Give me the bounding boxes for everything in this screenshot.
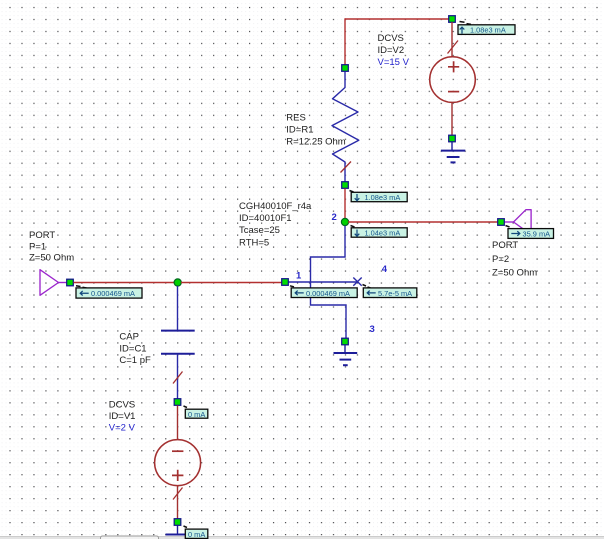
- node 2 label: [332, 212, 337, 223]
- current label 0.000469 mA (port 1): [76, 288, 142, 298]
- svg-text:RES: RES: [286, 112, 306, 123]
- port 1 symbol: [40, 270, 67, 296]
- DCVS U=V2 labels: [378, 33, 410, 68]
- leader dash to port2 current label: [506, 226, 510, 228]
- node at top of R1 (green square): [342, 65, 349, 72]
- current label 35.9 mA (port 2): [508, 229, 554, 239]
- svg-text:1.08e3 mA: 1.08e3 mA: [365, 193, 401, 202]
- DCVS V2 source circle: [430, 57, 476, 103]
- node at port 2 (green square): [498, 219, 505, 226]
- wire top-left vertical down to R1 top node: [344, 18, 346, 65]
- svg-text:DCVS: DCVS: [378, 33, 404, 44]
- node at top of V2 (green square): [449, 16, 456, 23]
- leader dashes to gate-side drain label: [351, 226, 360, 230]
- svg-text:C=1 pF: C=1 pF: [119, 355, 151, 366]
- svg-text:0 mA: 0 mA: [188, 530, 205, 539]
- svg-text:1.08e3 mA: 1.08e3 mA: [470, 26, 506, 35]
- svg-text:4: 4: [382, 264, 388, 275]
- svg-text:ID=R1: ID=R1: [286, 124, 313, 135]
- DCVS V1 labels: [109, 399, 136, 433]
- PORT P=1 labels: [29, 230, 74, 264]
- current label 1.04e3 mA (transistor drain): [351, 228, 407, 238]
- current label 0.000469 mA (gate): [291, 288, 357, 298]
- wire R1 bottom to node 2: [344, 189, 346, 220]
- svg-text:0.000469 mA: 0.000469 mA: [91, 289, 135, 298]
- wire port 1 to junction: [74, 282, 175, 284]
- svg-text:Z=50 Ohm: Z=50 Ohm: [29, 253, 74, 264]
- svg-text:Tcase=25: Tcase=25: [239, 225, 280, 236]
- current label 5.7e-5 mA (node 4): [363, 288, 417, 298]
- DCVS V1 top lead: [177, 406, 179, 440]
- ground at node 3: [334, 345, 358, 365]
- transistor U1 CGH40010F labels: [239, 201, 312, 249]
- svg-text:ID=V2: ID=V2: [378, 45, 405, 56]
- svg-text:V=2 V: V=2 V: [109, 423, 136, 434]
- svg-text:PORT: PORT: [492, 240, 518, 251]
- node under V2 (green square): [449, 135, 456, 142]
- svg-text:1.04e3 mA: 1.04e3 mA: [365, 229, 401, 238]
- leader dashes to node4 current label: [363, 285, 371, 289]
- node 4 label: [382, 264, 388, 275]
- RES R1 labels: [286, 112, 345, 147]
- svg-text:ID=V1: ID=V1: [109, 411, 136, 422]
- svg-text:0 mA: 0 mA: [188, 410, 205, 419]
- leader dash to bottom 0 mA label: [184, 526, 188, 528]
- DCVS V2 top lead with pin-1 tick: [448, 22, 459, 57]
- port 2 symbol: [505, 210, 532, 235]
- leader dash to 0 mA label: [184, 406, 188, 408]
- node at bottom of R1 (green square): [342, 182, 349, 189]
- node at bottom of V1 (green square): [174, 519, 181, 526]
- node 4 open-pin X mark: [353, 278, 361, 286]
- wire junction to node 1: [181, 282, 282, 284]
- svg-text:3: 3: [370, 324, 375, 335]
- leader dashes to gate current label: [290, 286, 294, 287]
- ground under V2: [441, 142, 465, 162]
- PORT P=2 labels: [492, 240, 537, 278]
- current label 0 mA (V1 top): [185, 409, 208, 419]
- wire top horizontal V2 to R1: [345, 18, 452, 20]
- node 1 (green square): [282, 279, 289, 286]
- current label 1.08e3 mA (V2 branch): [458, 25, 515, 35]
- node at top of V1 (green square): [174, 399, 181, 406]
- node 2 junction (green dot): [341, 218, 348, 225]
- resistor R1: [332, 72, 359, 182]
- junction over C1 (green dot): [174, 279, 181, 286]
- leader dashes to port1 current label: [76, 286, 87, 288]
- svg-text:2: 2: [332, 212, 337, 223]
- ground at bottom of V1 (clipped): [166, 526, 190, 535]
- node 3 label: [370, 324, 375, 335]
- svg-text:Z=50 Ohm: Z=50 Ohm: [492, 267, 537, 278]
- node at port 1 (green square): [67, 279, 74, 286]
- svg-text:P=1: P=1: [29, 241, 46, 252]
- svg-text:ID=C1: ID=C1: [119, 343, 146, 354]
- svg-text:ID=40010F1: ID=40010F1: [239, 213, 292, 224]
- leader dashes to drain current label: [350, 191, 359, 197]
- svg-text:0.000469 mA: 0.000469 mA: [306, 289, 350, 298]
- node 3 (green square): [342, 338, 349, 345]
- DCVS V1 bottom lead with pin-1 tick: [173, 486, 183, 519]
- CAP C1 labels: [119, 331, 151, 366]
- capacitor C1 plates: [161, 331, 195, 354]
- svg-text:V=15 V: V=15 V: [378, 57, 410, 68]
- leader dashes to I(V2) label: [460, 22, 472, 25]
- wire node 2 to port 2: [348, 221, 498, 223]
- svg-text:35.9 mA: 35.9 mA: [523, 230, 551, 239]
- transistor U1 gate line: [289, 281, 358, 283]
- node 1 label: [296, 270, 302, 281]
- svg-text:5.7e-5 mA: 5.7e-5 mA: [378, 289, 412, 298]
- svg-text:CGH40010F_r4a: CGH40010F_r4a: [239, 201, 312, 212]
- DCVS V2 bottom lead: [451, 102, 453, 135]
- svg-text:PORT: PORT: [29, 230, 55, 241]
- svg-text:CAP: CAP: [119, 331, 139, 342]
- svg-text:P=2: P=2: [492, 254, 509, 265]
- current label 1.08e3 mA (into drain node): [351, 192, 407, 202]
- svg-text:RTH=5: RTH=5: [239, 237, 269, 248]
- capacitor C1 bottom lead with pin tick: [173, 355, 183, 399]
- svg-text:DCVS: DCVS: [109, 399, 135, 410]
- current label 0 mA (V1 bottom): [185, 529, 208, 539]
- DCVS V1 source circle (flipped: minus top, plus bottom): [155, 440, 201, 486]
- capacitor C1 top lead: [177, 286, 179, 330]
- svg-text:R=12.25 Ohm: R=12.25 Ohm: [286, 136, 345, 147]
- transistor U1 drain/channel/source body: [311, 226, 347, 338]
- svg-text:1: 1: [296, 270, 302, 281]
